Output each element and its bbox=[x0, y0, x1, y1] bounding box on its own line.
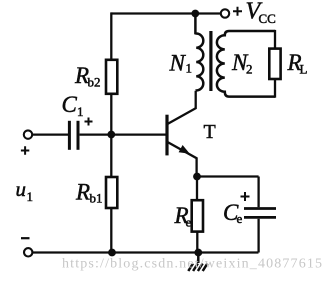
transistor T emitter lead bbox=[168, 142, 197, 173]
polarity minus at input bbox=[21, 237, 30, 239]
plus of +Vcc bbox=[233, 7, 242, 16]
svg-text:T: T bbox=[204, 121, 216, 143]
svg-text:2: 2 bbox=[246, 62, 253, 77]
terminal input bottom bbox=[24, 248, 32, 256]
wire Ce branch lower bbox=[257, 219, 259, 253]
transformer core bbox=[209, 31, 212, 91]
polarity plus at input bbox=[21, 146, 29, 154]
node bottom-left junction bbox=[108, 249, 116, 257]
wire Rb2 to base node bbox=[110, 94, 112, 135]
junction dots bbox=[107, 10, 202, 257]
resistor Rb2 bbox=[106, 60, 117, 94]
wire RL to N2 bottom bbox=[274, 79, 276, 98]
wire Rb1 to bottom rail bbox=[110, 208, 112, 253]
svg-text:b2: b2 bbox=[88, 75, 101, 90]
transistor T collector lead bbox=[168, 91, 196, 124]
wire C1 to base bbox=[80, 133, 166, 135]
wire Re to bottom rail bbox=[196, 232, 198, 253]
ground bbox=[188, 253, 207, 272]
svg-text:b1: b1 bbox=[90, 191, 103, 206]
inductor N2 secondary winding bbox=[217, 31, 275, 97]
svg-text:C: C bbox=[62, 92, 78, 117]
polarity plus at C1 bbox=[85, 118, 93, 126]
polarity plus at Ce bbox=[241, 192, 250, 201]
resistor Rb1 bbox=[106, 177, 117, 208]
terminal +Vcc bbox=[221, 9, 229, 17]
node bottom-emitter junction bbox=[194, 249, 202, 257]
node emitter junction bbox=[193, 173, 201, 181]
resistor RL bbox=[269, 49, 280, 79]
wire top rail bbox=[111, 12, 220, 14]
inductor N1 primary winding bbox=[195, 16, 203, 91]
wire bottom rail bbox=[33, 251, 259, 253]
svg-text:CC: CC bbox=[259, 11, 276, 26]
svg-text:e: e bbox=[186, 214, 192, 229]
svg-text:1: 1 bbox=[27, 189, 34, 204]
transistor T base bar bbox=[165, 115, 168, 156]
node top junction bbox=[191, 10, 199, 18]
svg-text:e: e bbox=[237, 211, 243, 226]
wire emitter node to Re bbox=[196, 177, 198, 201]
svg-text:1: 1 bbox=[186, 61, 193, 76]
node base junction bbox=[107, 131, 115, 139]
wire Ce branch upper bbox=[257, 177, 259, 208]
svg-text:L: L bbox=[300, 62, 308, 77]
capacitor C1 bbox=[69, 121, 78, 150]
svg-text:R: R bbox=[75, 179, 90, 204]
svg-text:N: N bbox=[169, 50, 187, 75]
transistor emitter arrow bbox=[179, 145, 190, 154]
wire left rail upper segment bbox=[110, 12, 112, 59]
svg-text:1: 1 bbox=[77, 104, 84, 119]
wire base node to Rb1 bbox=[110, 135, 112, 178]
wire emitter node to Ce branch bbox=[197, 175, 259, 177]
svg-text:https://blog.csdn.net/weixin_4: https://blog.csdn.net/weixin_40877615 bbox=[62, 257, 322, 272]
wire input to C1 bbox=[32, 133, 68, 135]
capacitor Ce bbox=[244, 209, 276, 218]
svg-text:u: u bbox=[16, 177, 27, 201]
terminal input top bbox=[24, 130, 32, 138]
wire N2 top to RL bbox=[274, 30, 276, 49]
resistor Re bbox=[192, 200, 203, 231]
